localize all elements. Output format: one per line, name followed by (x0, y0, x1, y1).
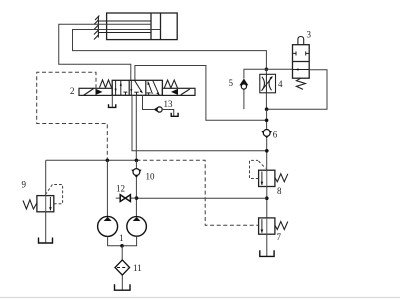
svg-text:8: 8 (277, 186, 282, 196)
valve 9 pilot dashed (52, 185, 62, 204)
valve U2 body (112, 80, 162, 95)
valve 7 drain (266, 234, 268, 256)
cylinder piston (151, 13, 161, 40)
valve U2 left spring (100, 80, 112, 88)
relief valve 7 (259, 218, 275, 234)
valve 7 remote pilot dashed (137, 160, 259, 225)
cylinder rod (98, 21, 151, 33)
valve 9 spring (23, 200, 37, 209)
pump pressure bus (46, 159, 137, 161)
filter 11 (115, 260, 130, 275)
wire pump junction to node B5 (137, 197, 267, 199)
valve U2 right solenoid box (162, 88, 195, 95)
junction node B3 (265, 119, 269, 123)
valve U2 drain to tank (111, 95, 113, 107)
suction tank (115, 284, 131, 290)
wire P port to supply (132, 95, 267, 151)
junction node B5 (265, 196, 269, 200)
junction node B4 (265, 149, 269, 153)
valve 3 spring (296, 78, 305, 89)
bypass check valve 5 branch (244, 69, 267, 78)
valve 7 spring (275, 222, 288, 230)
check valve 10 (131, 170, 141, 179)
wire valve8 to valve7 (266, 187, 268, 218)
svg-text:3: 3 (307, 30, 312, 40)
sequence valve 3 (266, 68, 292, 70)
tank under valve 9 (39, 238, 53, 244)
junction node P1 (106, 159, 110, 163)
svg-text:11: 11 (133, 263, 142, 273)
wire 10 to pump (135, 178, 137, 217)
valve U2 cell1 arrows (115, 80, 128, 95)
pump outlet join (108, 236, 137, 246)
wire cylinder port A to valve (59, 24, 151, 80)
svg-text:12: 12 (116, 184, 125, 194)
wire T port to pump bus (135, 95, 137, 160)
tank under valve 2 (109, 104, 116, 107)
tank under valve 7 (260, 250, 274, 256)
valve 8 pilot dashed (250, 160, 259, 178)
relief valve 8 (259, 170, 275, 186)
valve 3 plunger (298, 37, 304, 45)
check valve 13 (154, 106, 159, 113)
svg-text:7: 7 (277, 232, 282, 242)
svg-text:1: 1 (119, 233, 124, 243)
main line segment (266, 109, 268, 130)
wire 13 to tank (163, 110, 174, 117)
wire valve port to check valve 13 (143, 95, 154, 109)
wire filter to tank (121, 275, 123, 289)
valve 3 upper cell blocked ports (293, 51, 310, 55)
tank under 13 (171, 113, 178, 117)
relief valve 9 branch (45, 160, 47, 195)
rod anchor mount (94, 16, 99, 40)
valve U2 cell2 flows (130, 80, 142, 95)
junction node P3 (135, 196, 139, 200)
wire cylinder port B long top line (73, 30, 267, 70)
check valve 6 (261, 131, 272, 139)
junction node P4 (120, 244, 124, 248)
bottom page rule (0, 297, 400, 299)
valve U2 cell3 flows (147, 80, 160, 95)
valve U2 left solenoid box (79, 88, 112, 95)
valve 3 lower cell flow arrow (293, 69, 310, 71)
right pump feed line (135, 160, 137, 170)
valve 3 return loop (267, 70, 327, 109)
wire valve top right port to main line (135, 66, 267, 121)
junction node B1 (265, 68, 269, 72)
cylinder C barrel (107, 13, 178, 40)
valve 8 spring (275, 174, 288, 182)
svg-text:9: 9 (22, 180, 27, 190)
shutoff valve 12 (116, 197, 137, 199)
pilot drain dashed left (37, 72, 108, 160)
wire to filter (121, 246, 123, 260)
svg-text:10: 10 (146, 172, 156, 182)
svg-text:5: 5 (229, 78, 234, 88)
left pump line (106, 160, 108, 216)
svg-text:13: 13 (164, 99, 174, 109)
junction node P2 (135, 159, 139, 163)
svg-text:6: 6 (273, 130, 278, 140)
relief valve 9 (37, 196, 54, 212)
check valve 5 (239, 79, 248, 86)
right pump (127, 217, 147, 237)
junction node B2 (265, 107, 269, 111)
valve U2 right spring (164, 80, 177, 88)
svg-text:2: 2 (70, 86, 75, 96)
left pump (98, 216, 118, 236)
wire 4 down to node (265, 93, 267, 109)
valve 9 drain (45, 212, 47, 243)
svg-text:4: 4 (278, 79, 283, 89)
main line to node B4 (266, 138, 268, 170)
flow control valve 4 (265, 69, 267, 74)
